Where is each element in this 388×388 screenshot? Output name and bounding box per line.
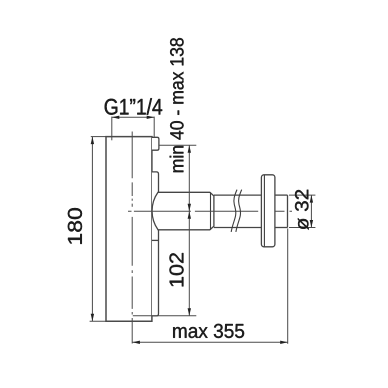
sliding sleeve behind body (152, 172, 159, 316)
dimension max 355 (132, 229, 287, 344)
wall flange (rosette) (261, 175, 275, 247)
dimension G1"1/4 (112, 117, 154, 141)
dimension 102 (133, 211, 197, 316)
dimension 180 (90, 137, 106, 322)
label 180 (68, 208, 82, 244)
label 102 (169, 253, 183, 286)
label o 32 (295, 190, 309, 230)
outlet pipe right segment (275, 195, 288, 227)
nut chamfer tangent line (210, 192, 212, 230)
inlet tab (G1 1/4 connection) (152, 137, 159, 150)
dimension min 40 - max 138 (159, 145, 196, 211)
compression nut on outlet pipe (152, 192, 214, 230)
body vertical center line (131, 132, 133, 344)
label min 40 - max 138 (170, 38, 184, 172)
label max 355 (173, 324, 244, 338)
outlet pipe left segment (214, 195, 262, 227)
label G1"1/4 (105, 98, 162, 115)
pipe horizontal center line (128, 210, 292, 212)
dimension diameter 32 (289, 195, 315, 227)
flange inner face line (263, 175, 265, 246)
sleeve divider line (152, 239, 159, 241)
pipe break lines (231, 190, 242, 232)
trap body (cover, side view) (106, 137, 152, 322)
